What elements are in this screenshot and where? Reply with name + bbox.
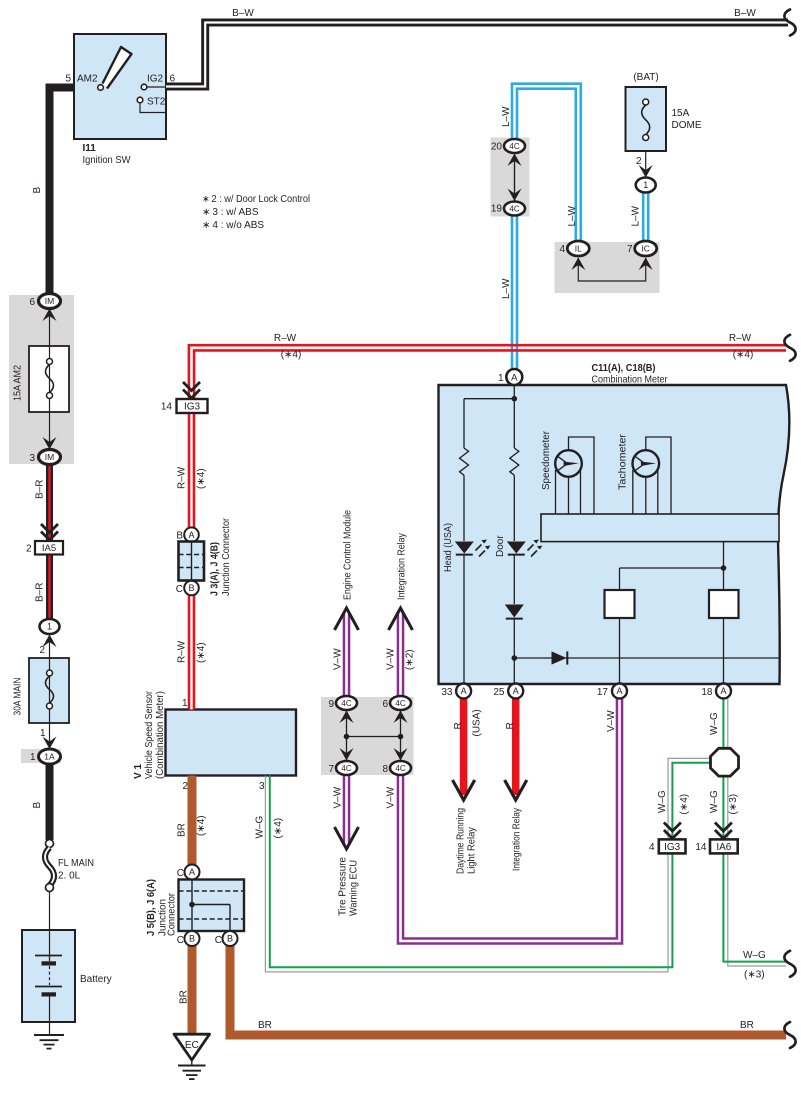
- wire (resistor to head LED): [463, 475, 465, 541]
- svg-text:R–W: R–W: [729, 333, 752, 344]
- label pin 18: [701, 687, 713, 698]
- svg-text:1: 1: [643, 180, 648, 190]
- svg-text:(∗4): (∗4): [273, 818, 284, 839]
- label pin 14 IA6: [695, 842, 707, 853]
- svg-text:Warning ECU: Warning ECU: [349, 860, 360, 916]
- svg-text:Integration Relay: Integration Relay: [397, 533, 408, 600]
- ignition switch I11 box: [74, 34, 166, 139]
- svg-text:B–R: B–R: [35, 583, 46, 602]
- ignition switch lever: [103, 47, 132, 89]
- svg-text:Door: Door: [495, 535, 506, 557]
- connector shading box (1A): [21, 749, 61, 763]
- svg-text:18: 18: [701, 687, 713, 698]
- label pin 17: [597, 687, 609, 698]
- svg-text:19: 19: [491, 204, 503, 215]
- arrow into 1A: [43, 737, 57, 750]
- label Ignition SW: [83, 155, 132, 166]
- label (*4) IG3: [679, 794, 690, 815]
- svg-text:V 1: V 1: [133, 764, 144, 779]
- wire B-R (IA5 to connector 1): [46, 555, 53, 621]
- label pin 5: [65, 74, 71, 85]
- label pin 2 DOME: [636, 156, 642, 167]
- svg-text:ST2: ST2: [147, 97, 166, 108]
- svg-text:(USA): (USA): [472, 709, 483, 736]
- connector shading box (15A AM2 fuse area): [9, 295, 74, 464]
- svg-text:V–W: V–W: [332, 786, 343, 808]
- wire R (meter 25 to integration relay): [512, 699, 520, 796]
- fuse 15A DOME element: [642, 99, 650, 141]
- label (*3) bottom right: [744, 970, 765, 981]
- meter internal feed line and node: [464, 385, 517, 448]
- double arrow into IA5: [41, 524, 58, 540]
- svg-text:B: B: [188, 583, 194, 593]
- note 3 abs: [202, 207, 259, 218]
- arrowhead to tire pressure warning ECU: [335, 827, 359, 849]
- wire (node through diode to right): [514, 657, 779, 659]
- wire break symbol W-G right edge: [784, 951, 795, 977]
- label 15A AM2: [13, 365, 24, 401]
- svg-text:R–W: R–W: [274, 333, 297, 344]
- resistor (head branch): [460, 448, 469, 475]
- label FL MAIN: [58, 858, 94, 869]
- svg-text:(∗2): (∗2): [405, 649, 416, 670]
- label (*4) vert: [196, 468, 207, 489]
- svg-text:J 3(A), J 4(B): J 3(A), J 4(B): [210, 542, 221, 596]
- arrow into connector 1 (DOME): [639, 165, 653, 178]
- arrow into 4 IL: [571, 258, 585, 271]
- arrowhead to integration relay (top): [389, 608, 413, 630]
- connector shading box (4C pair 20/19): [491, 138, 530, 217]
- wire R (meter 33 to daytime running light relay): [460, 699, 468, 796]
- label W-G 18: [709, 712, 720, 735]
- svg-text:Vehicle Speed Sensor: Vehicle Speed Sensor: [144, 690, 155, 779]
- svg-text:A: A: [189, 867, 195, 877]
- wire BR (junction connector B to EC ground): [188, 944, 197, 1034]
- svg-text:IM: IM: [45, 452, 54, 462]
- label pin 19: [491, 204, 503, 215]
- label 2.0L: [58, 871, 81, 882]
- label Head (USA): [443, 523, 454, 572]
- svg-text:Engine Control Module: Engine Control Module: [343, 510, 354, 600]
- svg-text:W–G: W–G: [657, 790, 668, 813]
- label Integration Relay bottom: [512, 808, 523, 871]
- fuse 30A MAIN element: [46, 670, 54, 709]
- label ST2: [147, 97, 166, 108]
- arrow into 7 4C: [340, 748, 354, 761]
- svg-text:BR: BR: [258, 1020, 272, 1031]
- label pin 25: [493, 687, 505, 698]
- label pin 9: [328, 699, 334, 710]
- label V-W 9: [332, 648, 343, 670]
- svg-text:A: A: [513, 686, 519, 696]
- connector shading box (IL/IC): [555, 242, 660, 293]
- svg-text:B: B: [32, 802, 43, 809]
- svg-text:FL MAIN: FL MAIN: [58, 858, 94, 869]
- svg-text:B–W: B–W: [232, 8, 254, 19]
- svg-text:W–G: W–G: [255, 816, 266, 839]
- svg-text:2: 2: [39, 645, 45, 656]
- label W-G IG3: [657, 790, 668, 813]
- label pin 2 30A: [39, 645, 45, 656]
- wire L-W (20 4C over top down to 4 IL): [515, 86, 579, 248]
- arrowhead daytime running light relay: [453, 780, 475, 800]
- wire R-W (junction connector B to V1 pin 1): [188, 590, 196, 710]
- label C junction B: [176, 584, 183, 595]
- label R-W vert: [177, 466, 188, 489]
- double arrow into 14 IG3: [183, 382, 200, 398]
- label Engine Control Module: [343, 510, 354, 600]
- svg-text:∗ 2 : w/ Door Lock Control: ∗ 2 : w/ Door Lock Control: [202, 194, 310, 205]
- fuse 15A AM2 element: [46, 359, 54, 399]
- ignition switch IG2 contact: [141, 84, 166, 90]
- wire BR (V1 pin 2 to junction connector A): [188, 776, 197, 867]
- svg-text:Light Relay: Light Relay: [467, 827, 478, 874]
- svg-text:15A AM2: 15A AM2: [13, 365, 24, 401]
- svg-text:Connector: Connector: [167, 892, 178, 936]
- svg-text:7: 7: [627, 244, 633, 255]
- label J5 J6: [146, 879, 157, 936]
- svg-text:A: A: [188, 530, 194, 540]
- svg-text:(∗4): (∗4): [196, 468, 207, 489]
- svg-text:1: 1: [30, 752, 36, 763]
- svg-text:C: C: [215, 935, 222, 946]
- label R wire: [505, 722, 516, 729]
- note 2 door lock: [202, 194, 310, 205]
- wire (diode to node to terminal 25): [512, 619, 518, 684]
- label V-W 6: [386, 648, 397, 670]
- svg-text:V–W: V–W: [606, 710, 617, 732]
- connector 7 IC: [635, 241, 657, 256]
- diode (door branch): [505, 605, 524, 619]
- wire (6 IM through 15A AM2 fuse to 3 IM): [49, 307, 51, 450]
- label (*4) left: [281, 350, 302, 361]
- battery cell symbol: [35, 956, 62, 997]
- arrow into 6 4C: [394, 711, 408, 724]
- label W-G bottom right: [743, 950, 766, 961]
- wire W-G (meter terminal 18 to 14 IA6 to right edge): [723, 699, 786, 967]
- double arrow into 4 IG3: [664, 823, 681, 839]
- svg-text:17: 17: [597, 687, 609, 698]
- svg-text:BR: BR: [740, 1020, 754, 1031]
- label L-W IC: [631, 205, 642, 226]
- meter terminal 17 A: [612, 684, 627, 699]
- svg-text:2: 2: [636, 156, 642, 167]
- speedometer gauge: [555, 437, 594, 514]
- svg-text:∗ 3 : w/ ABS: ∗ 3 : w/ ABS: [202, 207, 259, 218]
- label Junction J5: [158, 899, 169, 936]
- label B (lower): [32, 802, 43, 809]
- arrowhead integration relay: [505, 780, 527, 800]
- svg-text:4: 4: [649, 842, 655, 853]
- svg-text:L–W: L–W: [501, 278, 512, 299]
- svg-text:BR: BR: [179, 990, 190, 1004]
- wire V-W (8 4C around bottom up to meter terminal 17): [401, 695, 620, 941]
- label pin 14 IG3: [161, 402, 173, 413]
- svg-text:C: C: [177, 935, 184, 946]
- wire (door LED to diode): [513, 555, 515, 604]
- connector shading box (4C quad 9/6/7/8): [321, 697, 414, 775]
- label (*4) BR: [196, 815, 207, 836]
- wire L-W (connector 1 down to 7 IC): [642, 191, 650, 248]
- svg-text:B: B: [32, 187, 43, 194]
- wire break symbol R-W right edge: [784, 335, 795, 361]
- junction connector J5/J6 terminal B: [185, 931, 200, 946]
- ground EC triangle: [174, 1034, 210, 1060]
- LED head (USA): [455, 540, 491, 557]
- connector 6 4C: [390, 696, 411, 710]
- svg-text:(∗4): (∗4): [733, 350, 754, 361]
- label Vehicle Speed Sensor: [144, 690, 155, 779]
- svg-text:R–W: R–W: [177, 640, 188, 663]
- meter terminal 1 A: [506, 369, 522, 385]
- svg-text:(∗4): (∗4): [196, 642, 207, 663]
- arrow into 7 IC: [639, 258, 653, 271]
- label pin 6 IM: [29, 297, 35, 308]
- label (Combination Meter): [155, 691, 166, 779]
- meter terminal 18 A: [716, 684, 731, 699]
- wire BR (junction connector B2 to right edge): [230, 944, 786, 1035]
- connector 2 IA5: [35, 541, 63, 555]
- svg-text:8: 8: [382, 764, 388, 775]
- label Speedometer: [541, 430, 552, 490]
- label AM2: [77, 74, 98, 85]
- label Door: [495, 535, 506, 557]
- label BR bottom right: [740, 1020, 754, 1031]
- label B junction A: [176, 531, 183, 542]
- label pin 2 IA5: [26, 544, 32, 555]
- svg-text:25: 25: [493, 687, 505, 698]
- svg-text:DOME: DOME: [672, 120, 702, 131]
- svg-text:2. 0L: 2. 0L: [58, 871, 81, 882]
- wire (resistor to door LED): [513, 475, 515, 541]
- label (*3) IA6: [728, 794, 739, 815]
- label Integration Relay top: [397, 533, 408, 600]
- svg-text:Head (USA): Head (USA): [443, 523, 454, 572]
- svg-text:A: A: [616, 686, 622, 696]
- wire W-G (splice octagon to 4 IG3): [668, 758, 711, 840]
- svg-text:V–W: V–W: [386, 648, 397, 670]
- mating line 20-19 4C: [514, 160, 516, 201]
- svg-text:Daytime Running: Daytime Running: [456, 808, 467, 874]
- connector 14 IG3: [177, 399, 208, 413]
- label pin 7 IC: [627, 244, 633, 255]
- label pin 4 IL: [559, 244, 565, 255]
- meter bus bar: [541, 514, 779, 542]
- LED door: [507, 540, 543, 557]
- label Battery: [80, 974, 112, 985]
- wire break symbol B-W right edge: [784, 10, 795, 36]
- label (USA): [472, 709, 483, 736]
- svg-text:B: B: [176, 531, 183, 542]
- meter terminal 25 A: [508, 684, 523, 699]
- label R-W left: [274, 333, 297, 344]
- svg-text:1: 1: [182, 698, 188, 709]
- junction connector J3/J4 terminal A: [184, 527, 199, 542]
- tachometer gauge: [633, 437, 672, 514]
- label (*4) right: [733, 350, 754, 361]
- svg-text:4C: 4C: [509, 142, 519, 151]
- label C J5 A: [177, 868, 184, 879]
- ground symbol (EC): [178, 1060, 206, 1079]
- svg-text:4C: 4C: [341, 699, 351, 708]
- svg-text:L–W: L–W: [567, 205, 578, 226]
- junction connector J3/J4 body: [179, 542, 205, 581]
- svg-text:BR: BR: [177, 823, 188, 837]
- svg-text:Junction Connector: Junction Connector: [221, 517, 232, 596]
- svg-text:A: A: [511, 372, 518, 383]
- label W-G IA6: [709, 790, 720, 813]
- wire (head LED to terminal 33): [463, 555, 465, 684]
- arrow into 3 IM: [43, 437, 57, 450]
- wire W-G (V1 pin 3 to 4 IG3): [265, 776, 672, 972]
- wire (square left to terminal 17): [619, 618, 621, 684]
- arrow into 8 4C: [394, 748, 408, 761]
- svg-text:6: 6: [382, 699, 388, 710]
- label BR bottom left: [258, 1020, 272, 1031]
- label 30A MAIN: [13, 678, 24, 716]
- svg-text:Integration Relay: Integration Relay: [512, 808, 523, 871]
- svg-text:A: A: [461, 686, 467, 696]
- connector 9 4C: [336, 696, 357, 710]
- svg-text:L–W: L–W: [501, 106, 512, 127]
- junction connector J5/J6 terminal A: [185, 865, 200, 880]
- wire V-W (engine control module arrow to 9 4C): [343, 612, 351, 703]
- wire (FL MAIN to battery to ground): [49, 891, 51, 1035]
- label pin 1 1A: [30, 752, 36, 763]
- label B-R upper: [35, 480, 46, 499]
- label Combination Meter: [592, 375, 669, 386]
- battery box: [22, 930, 75, 1022]
- wire V-W (7 4C down to tire pressure ECU arrow): [343, 768, 351, 843]
- connector 6 IM: [39, 294, 61, 322]
- svg-text:14: 14: [695, 842, 707, 853]
- diode (horizontal): [552, 651, 568, 664]
- label pin 4 IG3: [649, 842, 655, 853]
- relay square left: [605, 590, 635, 618]
- label DOME: [672, 120, 702, 131]
- mating loop IL-IC: [578, 258, 645, 281]
- svg-text:15A: 15A: [672, 108, 690, 119]
- label BR upper: [177, 823, 188, 837]
- label B-R lower: [35, 583, 46, 602]
- svg-text:(∗4): (∗4): [281, 350, 302, 361]
- junction connector J5/J6 body: [179, 880, 245, 932]
- svg-text:5: 5: [65, 74, 71, 85]
- ground symbol (battery): [34, 1035, 64, 1049]
- svg-text:4C: 4C: [395, 764, 405, 773]
- svg-text:R: R: [505, 722, 516, 729]
- label pin 8 4C: [382, 764, 388, 775]
- svg-text:C: C: [176, 584, 183, 595]
- wire (DOME fuse pin 2 to connector 1): [645, 151, 647, 179]
- label R-W lower: [177, 640, 188, 663]
- label pin 1 30A: [40, 728, 46, 739]
- label Daytime Running: [456, 808, 467, 874]
- label pin 3 V1: [259, 781, 265, 792]
- svg-text:∗ 4 : w/o ABS: ∗ 4 : w/o ABS: [202, 220, 264, 231]
- vehicle speed sensor V1 box: [166, 710, 297, 776]
- label Tire Pressure: [338, 857, 349, 916]
- svg-text:(Combination Meter): (Combination Meter): [155, 691, 166, 779]
- relay square right: [709, 590, 739, 618]
- wire R-W horizontal (to right edge): [189, 345, 786, 399]
- svg-text:B–W: B–W: [734, 8, 756, 19]
- svg-text:V–W: V–W: [332, 648, 343, 670]
- svg-text:20: 20: [491, 142, 503, 153]
- svg-text:V–W: V–W: [386, 786, 397, 808]
- fuse 30A MAIN box: [29, 658, 69, 723]
- svg-text:R: R: [453, 722, 464, 729]
- svg-text:4C: 4C: [341, 764, 351, 773]
- label Connector J5: [167, 892, 178, 936]
- meter terminal 33 A: [456, 684, 471, 699]
- label R-W right: [729, 333, 752, 344]
- svg-text:Battery: Battery: [80, 974, 112, 985]
- svg-text:3: 3: [29, 453, 35, 464]
- wire R-W (IG3 to junction connector A): [188, 413, 196, 533]
- label B-W left: [232, 8, 254, 19]
- label pin 2 V1: [182, 781, 188, 792]
- svg-text:IG2: IG2: [147, 74, 164, 85]
- svg-text:Tire Pressure: Tire Pressure: [338, 857, 349, 916]
- label (*4) lower: [196, 642, 207, 663]
- label Warning ECU: [349, 860, 360, 916]
- label W-G pin3: [255, 816, 266, 839]
- label C J5 B2: [215, 935, 222, 946]
- ignition switch AM2 contact: [98, 85, 104, 91]
- svg-text:IA5: IA5: [42, 543, 56, 554]
- wire B-R (3 IM to IA5): [46, 464, 53, 541]
- svg-text:3: 3: [259, 781, 265, 792]
- arrow into connector 1: [43, 635, 57, 648]
- ignition switch ST2 contact: [137, 97, 166, 112]
- label I11: [83, 143, 97, 154]
- wire L-W (meter terminal 1A up to 19 4C): [511, 208, 519, 369]
- label V-W 17: [606, 710, 617, 732]
- label C J5 B: [177, 935, 184, 946]
- label (*4) pin3: [273, 818, 284, 839]
- svg-text:(BAT): (BAT): [633, 72, 658, 83]
- svg-text:W–G: W–G: [743, 950, 766, 961]
- fuse 15A AM2 box: [29, 346, 69, 412]
- svg-text:Ignition SW: Ignition SW: [83, 155, 132, 166]
- svg-text:IL: IL: [575, 244, 582, 254]
- svg-text:IC: IC: [641, 244, 650, 254]
- wire V-W (integration relay arrow to 6 4C): [397, 612, 405, 703]
- svg-text:Tachometer: Tachometer: [618, 433, 629, 490]
- label B-W right: [734, 8, 756, 19]
- svg-text:IA6: IA6: [716, 842, 731, 853]
- connector 7 4C: [336, 761, 357, 775]
- svg-text:1: 1: [40, 728, 46, 739]
- junction connector J5/J6 terminal B2: [223, 931, 238, 946]
- svg-text:Combination Meter: Combination Meter: [592, 375, 669, 386]
- label R (USA) wire: [453, 722, 464, 729]
- svg-text:2: 2: [26, 544, 32, 555]
- svg-text:IM: IM: [45, 296, 54, 306]
- label pin 7 4C: [328, 764, 334, 775]
- label 15A: [672, 108, 690, 119]
- connector 20 4C: [504, 139, 525, 166]
- label pin 1 meter: [498, 373, 504, 384]
- wire B-W (IG2 to right edge): [166, 23, 788, 87]
- mating lines 4C quad: [344, 710, 404, 760]
- svg-text:EC: EC: [185, 1040, 199, 1051]
- connector 4 IG3: [659, 839, 686, 853]
- label L-W IL: [567, 205, 578, 226]
- svg-text:33: 33: [441, 687, 453, 698]
- connector 1 (DOME): [636, 178, 656, 193]
